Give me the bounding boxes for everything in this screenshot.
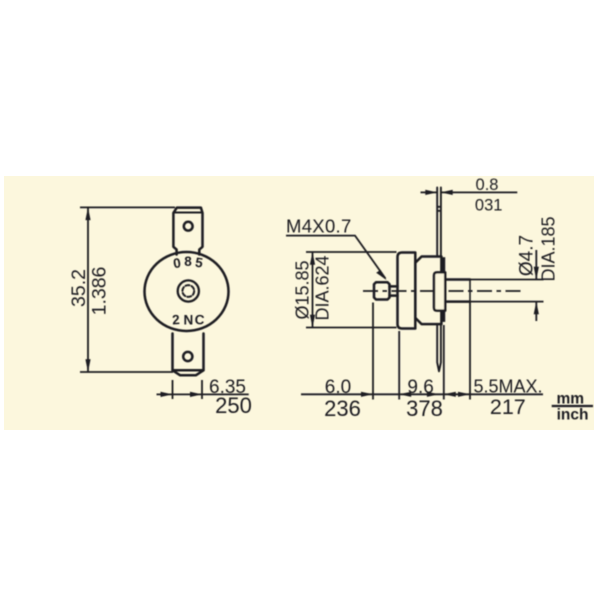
svg-text:Ø15.85: Ø15.85: [293, 260, 313, 319]
svg-text:9.6: 9.6: [407, 377, 433, 398]
svg-text:5.5MAX.: 5.5MAX.: [473, 377, 542, 397]
svg-text:35.2: 35.2: [68, 269, 90, 307]
svg-text:C: C: [194, 312, 205, 328]
svg-text:378: 378: [406, 396, 443, 421]
svg-text:0.8: 0.8: [476, 176, 499, 194]
svg-text:031: 031: [475, 197, 503, 215]
svg-text:1.386: 1.386: [89, 267, 111, 316]
svg-text:Ø4.7: Ø4.7: [517, 235, 538, 276]
svg-text:250: 250: [215, 393, 252, 418]
svg-text:M4X0.7: M4X0.7: [286, 215, 352, 236]
svg-text:N: N: [184, 313, 194, 328]
svg-text:DIA.624: DIA.624: [313, 255, 333, 320]
svg-text:inch: inch: [557, 407, 589, 424]
svg-text:217: 217: [490, 395, 526, 419]
svg-text:2: 2: [172, 312, 181, 327]
svg-text:236: 236: [324, 396, 361, 421]
svg-text:8: 8: [184, 254, 192, 269]
svg-text:DIA.185: DIA.185: [539, 216, 559, 281]
svg-text:6.0: 6.0: [325, 377, 351, 398]
